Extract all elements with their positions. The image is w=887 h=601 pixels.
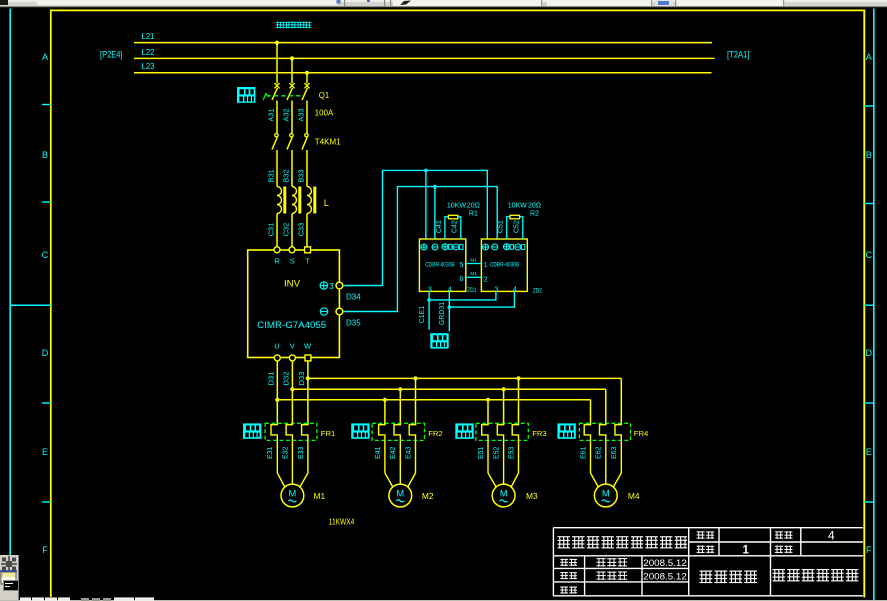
svg-text:R1: R1 bbox=[469, 210, 478, 217]
thermal relay FR1 cross-reference box bbox=[243, 423, 261, 438]
svg-text:M: M bbox=[500, 487, 508, 498]
svg-text:E62: E62 bbox=[596, 446, 603, 459]
svg-text:M3: M3 bbox=[526, 491, 538, 501]
motor M2 bbox=[389, 484, 412, 507]
branch 1 drop wires bbox=[0, 0, 1, 1]
svg-text:M: M bbox=[602, 487, 610, 498]
thermal relay FR3 bbox=[476, 423, 528, 442]
ZD2 terminal symbols bbox=[483, 244, 525, 250]
svg-text:1: 1 bbox=[484, 260, 488, 269]
resistor R1 bbox=[448, 215, 458, 219]
svg-text:[T2A1]: [T2A1] bbox=[727, 49, 750, 59]
svg-text:E32: E32 bbox=[282, 446, 289, 459]
svg-text:10KW: 10KW bbox=[447, 203, 466, 210]
svg-text:20Ω: 20Ω bbox=[528, 203, 541, 210]
svg-text:20Ω: 20Ω bbox=[467, 203, 480, 210]
thermal relay FR1 bbox=[265, 423, 317, 442]
svg-text:C42: C42 bbox=[451, 220, 458, 233]
svg-text:C52: C52 bbox=[514, 220, 521, 233]
svg-text:M4: M4 bbox=[628, 491, 640, 501]
inverter DC- symbol bbox=[320, 308, 327, 315]
svg-text:ZD1: ZD1 bbox=[467, 287, 476, 294]
row tick right 1 bbox=[864, 105, 874, 107]
svg-text:M1: M1 bbox=[470, 271, 477, 276]
branch 2 motor feed wires bbox=[385, 442, 416, 488]
inverter output terminal U bbox=[274, 355, 280, 361]
svg-text:INV: INV bbox=[284, 279, 301, 290]
title block text: Chongqing Jiaotong University (6 CJK chars) bbox=[773, 569, 786, 581]
svg-text:E63: E63 bbox=[611, 446, 618, 459]
svg-text:A: A bbox=[42, 52, 48, 62]
wire ZD1 pin6 to ZD2 pin2 bbox=[466, 276, 482, 278]
motor M1 bbox=[281, 484, 304, 507]
svg-text:5: 5 bbox=[459, 260, 463, 269]
title block label: drawing no. bbox=[775, 531, 783, 539]
svg-text:A33: A33 bbox=[297, 108, 306, 121]
svg-text:E51: E51 bbox=[478, 446, 485, 459]
svg-text:C1E1: C1E1 bbox=[419, 306, 426, 324]
bus L23 wire bbox=[134, 72, 712, 74]
inverter DC+ terminal bbox=[336, 282, 343, 289]
svg-text:L: L bbox=[324, 198, 329, 208]
svg-text:W: W bbox=[304, 341, 312, 350]
svg-text:CDBR-4030B: CDBR-4030B bbox=[490, 262, 520, 269]
row tick right 5 bbox=[864, 501, 874, 503]
bus junction dots branch 2 bbox=[383, 376, 418, 402]
resistor R2 bbox=[510, 215, 520, 219]
svg-text:3: 3 bbox=[329, 282, 334, 291]
floating tool palette bbox=[0, 555, 19, 601]
svg-text:T: T bbox=[305, 256, 310, 265]
svg-text:U: U bbox=[274, 341, 279, 350]
svg-text:M2: M2 bbox=[422, 491, 434, 501]
svg-text:Q1: Q1 bbox=[319, 91, 329, 100]
svg-text:100A: 100A bbox=[315, 109, 334, 118]
svg-text:T4KM1: T4KM1 bbox=[315, 137, 341, 146]
wire D31 (U phase) bbox=[276, 361, 278, 425]
svg-text:D33: D33 bbox=[297, 372, 306, 386]
branch 4 drop wires bbox=[591, 378, 622, 424]
svg-text:E53: E53 bbox=[508, 446, 515, 459]
svg-text:E31: E31 bbox=[267, 446, 274, 459]
resistor R1 wiring C41/C42 bbox=[445, 217, 461, 239]
row tick right 3 bbox=[864, 304, 874, 306]
branch 3 drop wires bbox=[488, 378, 519, 424]
svg-text:L21: L21 bbox=[142, 32, 155, 41]
title block name: Li Jianghua (row 1) bbox=[597, 558, 606, 567]
inverter input terminal R bbox=[274, 247, 280, 253]
svg-text:E52: E52 bbox=[494, 446, 501, 459]
title block label: quantity bbox=[697, 546, 705, 554]
tooltip near palette bbox=[3, 580, 19, 591]
inverter input terminal S bbox=[289, 247, 295, 253]
inverter DC- terminal bbox=[336, 308, 343, 315]
ZD nets cross-reference box bbox=[430, 333, 448, 348]
wire ZD1 pin5 to ZD2 pin1 bbox=[466, 263, 482, 265]
node L22 tap junction bbox=[290, 56, 294, 60]
svg-text:CIMR-G7A4055: CIMR-G7A4055 bbox=[257, 320, 326, 330]
title block label: material bbox=[775, 546, 783, 554]
svg-text:B32: B32 bbox=[282, 169, 291, 182]
svg-text:A31: A31 bbox=[267, 108, 276, 121]
svg-text:FR1: FR1 bbox=[321, 429, 336, 438]
svg-text:B31: B31 bbox=[267, 169, 276, 182]
svg-text:ZD2: ZD2 bbox=[533, 287, 542, 294]
inverter output terminal W bbox=[305, 355, 311, 361]
svg-text:2: 2 bbox=[484, 275, 488, 284]
svg-text:S: S bbox=[290, 256, 295, 265]
row tick left 2 bbox=[42, 201, 51, 203]
distribution bus phase U bbox=[277, 399, 590, 401]
svg-text:D31: D31 bbox=[266, 372, 275, 386]
branch 4 motor feed wires bbox=[591, 442, 622, 488]
svg-text:A32: A32 bbox=[282, 108, 291, 121]
distribution bus phase V bbox=[292, 388, 605, 390]
fold centre mark left bbox=[10, 304, 51, 306]
svg-text:2008.5.12: 2008.5.12 bbox=[643, 558, 687, 568]
svg-text:11KWX4: 11KWX4 bbox=[329, 518, 355, 527]
wire L21 tap drop bbox=[276, 43, 278, 84]
bus junction dots branch 3 bbox=[486, 376, 521, 402]
wire net D35 (DC-) bbox=[343, 185, 497, 312]
inverter terminal labels R S T bbox=[274, 256, 310, 265]
motor M3 bbox=[492, 484, 515, 507]
wire L23 tap drop bbox=[306, 73, 308, 84]
thermal relay FR2 bbox=[372, 423, 424, 442]
svg-text:B: B bbox=[42, 150, 48, 160]
row tick right 2 bbox=[864, 203, 874, 205]
svg-text:E61: E61 bbox=[580, 446, 587, 459]
svg-text:E: E bbox=[42, 447, 48, 457]
svg-text:E42: E42 bbox=[390, 446, 397, 459]
title block table bbox=[553, 528, 863, 596]
braking unit ZD1 box bbox=[419, 239, 465, 291]
title text: drawing title (9 CJK chars) bbox=[558, 536, 570, 548]
reactor L (3-phase) bbox=[277, 187, 316, 247]
ZD1 terminal symbols bbox=[421, 244, 463, 250]
node L23 tap junction bbox=[305, 71, 309, 75]
svg-text:E: E bbox=[866, 447, 872, 457]
breaker Q1 bbox=[272, 83, 310, 133]
svg-text:C51: C51 bbox=[498, 220, 505, 233]
motor M4 bbox=[594, 484, 617, 507]
svg-text:2008.5.12: 2008.5.12 bbox=[643, 571, 687, 581]
bus L22 wire bbox=[134, 57, 715, 59]
svg-text:C32: C32 bbox=[282, 223, 291, 237]
status bar buttons bbox=[0, 0, 887, 1]
resistor R2 wiring C51/C52 bbox=[507, 217, 523, 239]
svg-text:6: 6 bbox=[459, 274, 463, 283]
svg-text:E41: E41 bbox=[375, 446, 382, 459]
thermal relay FR3 cross-reference box bbox=[455, 423, 473, 438]
svg-text:4: 4 bbox=[828, 528, 835, 542]
svg-text:D35: D35 bbox=[346, 319, 361, 328]
wire net C1E1 bbox=[427, 291, 496, 329]
row tick left 1 bbox=[42, 104, 51, 106]
svg-text:FR3: FR3 bbox=[532, 429, 547, 438]
row tick left 3 bbox=[42, 402, 51, 404]
svg-text:CDBR-4030B: CDBR-4030B bbox=[425, 262, 455, 269]
title block label: drafted by bbox=[560, 572, 568, 579]
svg-text:[P2E4]: [P2E4] bbox=[100, 49, 123, 59]
title block text: graduation project (4 CJK chars) bbox=[700, 571, 713, 584]
svg-text:R: R bbox=[274, 256, 280, 265]
svg-text:M1: M1 bbox=[314, 491, 326, 501]
branch 2 drop wires bbox=[385, 378, 416, 424]
wire D32 (V phase) bbox=[291, 361, 293, 425]
breaker Q1 cross-reference box bbox=[237, 87, 255, 103]
title block label: drawn by bbox=[560, 559, 568, 566]
svg-text:C41: C41 bbox=[436, 220, 443, 233]
node L21 tap junction bbox=[275, 41, 279, 45]
branch 1 motor feed wires bbox=[277, 442, 308, 488]
svg-text:C: C bbox=[42, 250, 49, 260]
braking unit ZD2 box bbox=[481, 239, 527, 291]
svg-text:L22: L22 bbox=[142, 48, 155, 57]
svg-text:FR4: FR4 bbox=[634, 429, 649, 438]
application toolbar strip (cropped) bbox=[0, 0, 887, 7]
svg-text:C33: C33 bbox=[297, 223, 306, 237]
drawing frame outer cyan border (left) bbox=[9, 9, 11, 601]
svg-text:E33: E33 bbox=[298, 446, 305, 459]
svg-text:1: 1 bbox=[743, 545, 750, 557]
svg-text:B: B bbox=[866, 150, 872, 160]
thermal relay FR4 bbox=[579, 423, 630, 442]
title block label: reviewed by bbox=[560, 586, 568, 593]
feeder title text (small CJK) bbox=[276, 22, 283, 29]
svg-text:D32: D32 bbox=[282, 372, 291, 386]
svg-text:E43: E43 bbox=[405, 446, 412, 459]
title block name: Li Jianghua (row 2) bbox=[597, 571, 606, 580]
bus L21 wire bbox=[134, 42, 712, 44]
svg-text:GRD31: GRD31 bbox=[439, 302, 446, 325]
row tick left 4 bbox=[42, 501, 51, 503]
branch 3 motor feed wires bbox=[488, 442, 519, 488]
svg-text:L23: L23 bbox=[142, 62, 155, 71]
inverter output terminal V bbox=[289, 355, 295, 361]
svg-text:C31: C31 bbox=[267, 223, 276, 237]
thermal relay FR4 cross-reference box bbox=[557, 423, 575, 438]
wire D33 (W phase) bbox=[307, 361, 309, 425]
row tick right 4 bbox=[864, 402, 874, 404]
inverter terminal labels U V W bbox=[274, 341, 312, 350]
drawing frame outer cyan border (right) bbox=[873, 9, 875, 601]
contactor KM1 bbox=[272, 134, 308, 187]
svg-text:M1: M1 bbox=[470, 257, 477, 262]
svg-text:10KW: 10KW bbox=[508, 203, 527, 210]
svg-text:FR2: FR2 bbox=[428, 429, 443, 438]
wire L22 tap drop bbox=[291, 58, 293, 83]
svg-text:B33: B33 bbox=[297, 169, 306, 182]
svg-text:D: D bbox=[42, 348, 49, 358]
distribution bus phase W bbox=[308, 377, 621, 379]
wire net D34 (DC+) bbox=[343, 169, 487, 286]
thermal relay FR2 cross-reference box bbox=[351, 423, 369, 438]
svg-text:M: M bbox=[288, 487, 296, 498]
svg-text:R2: R2 bbox=[530, 210, 539, 217]
svg-text:D34: D34 bbox=[346, 293, 361, 302]
svg-text:F: F bbox=[42, 545, 48, 555]
svg-text:C: C bbox=[866, 250, 873, 260]
status bar remnant line bbox=[0, 600, 887, 601]
inverter DC+ symbol and pin 3 bbox=[320, 282, 334, 291]
svg-text:D: D bbox=[866, 348, 873, 358]
svg-text:M: M bbox=[396, 487, 404, 498]
title block label: scale bbox=[697, 531, 705, 539]
bus junction dots branch 1 bbox=[275, 376, 310, 402]
breaker Q1 linkage (green dashed) bbox=[263, 94, 303, 101]
wire net GRD31 bbox=[448, 291, 515, 331]
svg-text:F: F bbox=[866, 545, 872, 555]
svg-text:A: A bbox=[866, 52, 872, 62]
svg-text:V: V bbox=[290, 341, 295, 350]
inverter input terminal T bbox=[305, 247, 311, 253]
inverter U1 box CIMR-G7A4055 bbox=[248, 250, 340, 358]
